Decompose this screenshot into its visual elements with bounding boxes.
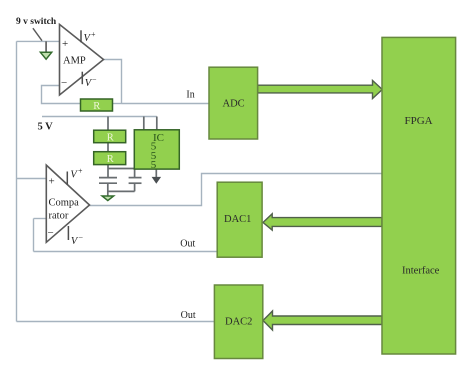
svg-text:R: R bbox=[107, 133, 114, 144]
svg-text:Out: Out bbox=[181, 310, 196, 321]
svg-text:R: R bbox=[93, 101, 100, 112]
svg-text:9 v switch: 9 v switch bbox=[16, 17, 57, 27]
svg-text:DAC2: DAC2 bbox=[225, 317, 252, 328]
svg-text:+: + bbox=[49, 176, 55, 188]
svg-text:Interface: Interface bbox=[402, 266, 440, 277]
svg-text:+: + bbox=[78, 167, 83, 176]
svg-text:+: + bbox=[62, 38, 68, 50]
svg-text:5: 5 bbox=[151, 159, 157, 171]
svg-text:DAC1: DAC1 bbox=[224, 214, 251, 225]
svg-text:rator: rator bbox=[49, 211, 69, 222]
svg-text:+: + bbox=[91, 30, 96, 39]
svg-text:AMP: AMP bbox=[63, 56, 86, 67]
svg-text:R: R bbox=[107, 154, 114, 165]
svg-text:In: In bbox=[186, 89, 194, 100]
svg-text:FPGA: FPGA bbox=[405, 115, 433, 127]
svg-text:−: − bbox=[48, 227, 54, 239]
svg-text:−: − bbox=[61, 77, 67, 89]
svg-text:ADC: ADC bbox=[223, 99, 245, 110]
svg-text:Compa: Compa bbox=[49, 198, 80, 209]
svg-text:−: − bbox=[92, 75, 97, 84]
svg-text:Out: Out bbox=[180, 239, 195, 250]
svg-text:−: − bbox=[79, 233, 84, 242]
svg-text:5 V: 5 V bbox=[38, 122, 54, 133]
